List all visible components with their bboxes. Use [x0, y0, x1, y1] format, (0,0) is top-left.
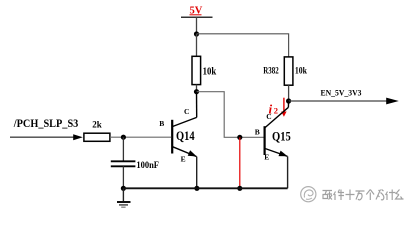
watermark text 硬件十万个为什么 (drawn strokes) — [323, 190, 404, 201]
resistor R2k body — [84, 133, 110, 141]
junction dot cap bottom at rail — [121, 186, 126, 191]
capacitor C1 plates — [111, 161, 136, 166]
wire: input from left — [10, 136, 75, 138]
ground — [117, 188, 131, 207]
svg-text:B: B — [255, 127, 260, 136]
svg-text:R382: R382 — [263, 65, 279, 75]
svg-text:100nF: 100nF — [136, 161, 159, 171]
net label 5V — [190, 5, 203, 16]
svg-text:10k: 10k — [203, 67, 217, 78]
wire: node B to Q15 base — [197, 92, 264, 138]
svg-text:10k: 10k — [295, 65, 307, 75]
wire: output to arrow — [289, 100, 387, 102]
svg-text:B: B — [159, 119, 164, 128]
svg-text:EN_5V_3V3: EN_5V_3V3 — [321, 88, 363, 98]
wire: node A to R1 top — [196, 34, 198, 56]
wire: Q14 emitter down to rail — [196, 157, 198, 189]
wire: capacitor bottom to rail — [122, 166, 124, 188]
current arrow i2 (red, downward) — [281, 98, 286, 117]
watermark logo circle — [301, 187, 316, 202]
node E junction dot (cap top) — [121, 135, 126, 140]
resistor R382 body — [284, 57, 293, 85]
svg-text:C: C — [266, 112, 271, 121]
node A junction dot (5V rail split) — [194, 31, 199, 36]
wire: Q15 emitter down to rail — [287, 156, 289, 188]
svg-text:2k: 2k — [92, 120, 102, 130]
wire: 2k to Q14 base — [110, 136, 171, 138]
wire: bottom emitter rail — [123, 187, 287, 189]
wire: R1 bottom to node B — [196, 85, 198, 92]
input arrowhead — [73, 134, 83, 140]
svg-text:C: C — [184, 107, 189, 116]
svg-text:Q15: Q15 — [272, 130, 291, 144]
svg-text:/PCH_SLP_S3: /PCH_SLP_S3 — [13, 118, 79, 130]
junction dot Q14 emitter at rail — [194, 186, 199, 191]
wire: 5V bar down to node A — [196, 17, 198, 34]
node D junction dot (Q15 collector / output) — [286, 98, 291, 103]
svg-text:E: E — [181, 155, 186, 164]
power symbol 5V — [181, 16, 213, 18]
wire red highlighted segment node C to emitter rail — [239, 137, 241, 188]
svg-text:E: E — [264, 153, 269, 162]
node B junction dot (R1 bottom / Q14 collector) — [194, 89, 199, 94]
transistor Q14 — [172, 92, 197, 157]
node C junction dot (on Q15 base wire) — [237, 135, 242, 140]
junction dot red wire at rail — [237, 186, 242, 191]
wire: node E down to capacitor — [122, 137, 124, 160]
wire: node A across top to R382 — [197, 34, 289, 57]
wire: R382 bottom to node D — [288, 85, 290, 101]
resistor R1 body — [192, 56, 201, 84]
output arrowhead — [386, 98, 399, 105]
transistor Q15 — [265, 101, 289, 156]
current annotation i2 (red) — [269, 101, 279, 116]
svg-text:Q14: Q14 — [176, 129, 195, 143]
svg-text:2: 2 — [274, 105, 278, 115]
